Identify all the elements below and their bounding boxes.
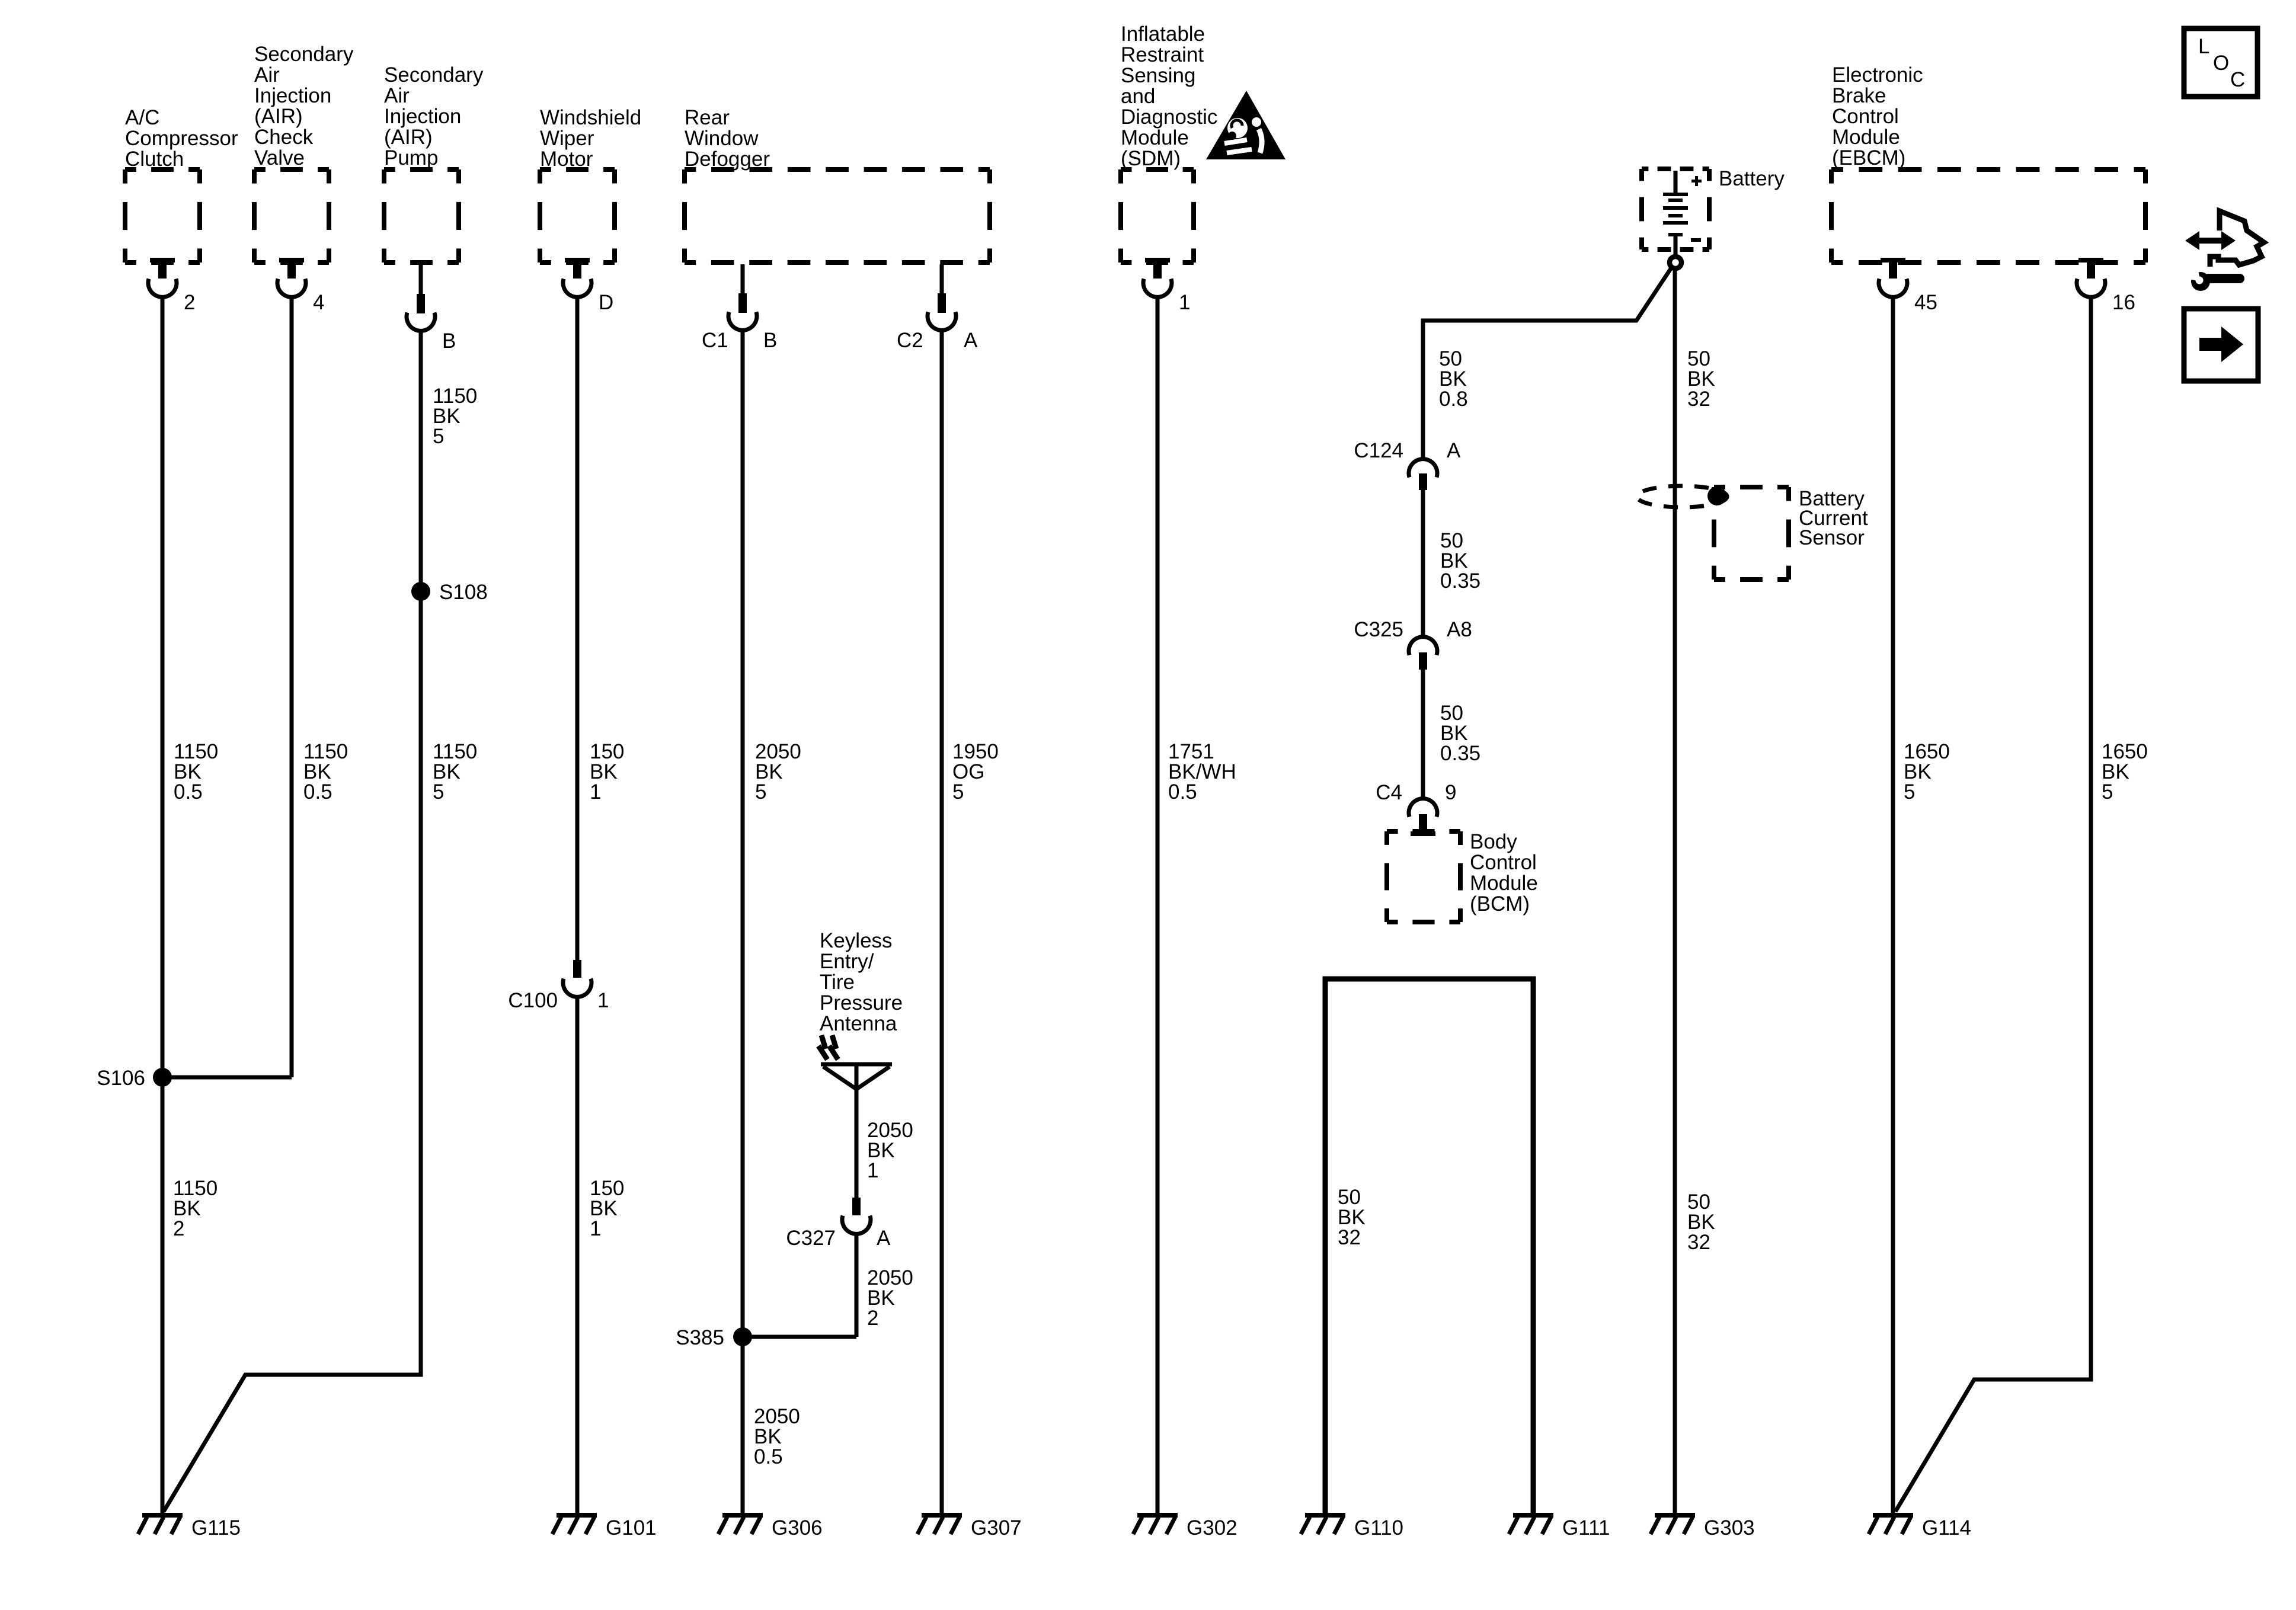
connector C100 pin 1 xyxy=(508,960,609,1012)
connector C327 pin A xyxy=(786,1198,891,1250)
svg-text:1: 1 xyxy=(590,780,601,804)
svg-text:A8: A8 xyxy=(1447,618,1472,641)
svg-text:Check: Check xyxy=(254,126,314,149)
wire defogger C2 to G307 xyxy=(940,329,944,1515)
wire label 150 BK 1 (wiper) xyxy=(590,740,624,804)
wire C124 to C325 xyxy=(1421,490,1425,638)
svg-text:Air: Air xyxy=(254,63,280,87)
svg-text:Diagnostic: Diagnostic xyxy=(1121,105,1217,129)
svg-text:G101: G101 xyxy=(606,1516,657,1539)
svg-text:G302: G302 xyxy=(1187,1516,1237,1539)
connector C325 pin A8 xyxy=(1354,618,1472,670)
svg-text:A/C: A/C xyxy=(125,106,159,129)
svg-text:(AIR): (AIR) xyxy=(254,105,303,128)
svg-text:5: 5 xyxy=(433,780,444,804)
ground G110 xyxy=(1301,1513,1403,1539)
EBCM box xyxy=(1831,63,2145,263)
wire EBCM 45 to G114 xyxy=(1891,295,1895,1513)
svg-text:Wiper: Wiper xyxy=(540,127,594,150)
svg-text:C4: C4 xyxy=(1376,781,1402,804)
svg-text:S106: S106 xyxy=(97,1067,145,1090)
battery box and symbol xyxy=(1642,167,1785,268)
wire antenna to C327 xyxy=(855,1089,859,1199)
wire label 1150 BK 2 (below S106) xyxy=(173,1177,218,1240)
wire label 1150 BK 0.5 (A/C) xyxy=(174,740,218,804)
BCM box xyxy=(1387,830,1538,922)
svg-text:Keyless: Keyless xyxy=(820,929,893,952)
wire label 2050 BK 0.5 (below S385) xyxy=(754,1405,800,1468)
battery current sensor clamp ellipse xyxy=(1637,486,1727,507)
svg-text:C325: C325 xyxy=(1354,618,1403,641)
connector pin SDM pin 1 xyxy=(1143,258,1190,314)
svg-text:(EBCM): (EBCM) xyxy=(1832,146,1905,169)
wire label 1650 BK 5 (EBCM 16) xyxy=(2102,740,2148,804)
svg-text:5: 5 xyxy=(755,780,766,804)
svg-text:Rear: Rear xyxy=(685,106,730,129)
LOC box icon xyxy=(2184,28,2257,97)
splice S108 xyxy=(411,581,488,604)
ground G302 xyxy=(1133,1513,1237,1539)
svg-text:O: O xyxy=(2213,52,2229,75)
svg-text:(AIR): (AIR) xyxy=(384,126,433,149)
keyless entry antenna label xyxy=(820,929,903,1035)
svg-text:(SDM): (SDM) xyxy=(1121,147,1181,170)
AIR Check Valve box xyxy=(254,43,354,263)
connector pin EBCM pin 16 xyxy=(2077,258,2135,314)
boxed right arrow icon xyxy=(2184,309,2258,381)
ground G115 xyxy=(138,1513,241,1539)
connector pin EBCM pin 45 xyxy=(1879,258,1937,314)
wire label 50 BK 32 (battery upper) xyxy=(1687,347,1715,411)
svg-text:Secondary: Secondary xyxy=(254,43,354,66)
wire label 2050 BK 2 (C327 to S385) xyxy=(867,1266,913,1330)
wire wiper motor to C100 xyxy=(575,295,580,961)
ground G303 xyxy=(1651,1513,1755,1539)
wire C100 to G101 xyxy=(575,996,580,1515)
svg-text:A: A xyxy=(877,1227,891,1250)
wire C327 to S385 xyxy=(855,1233,859,1337)
svg-text:5: 5 xyxy=(2102,780,2113,804)
svg-text:Injection: Injection xyxy=(254,84,331,107)
svg-text:Tire: Tire xyxy=(820,971,855,994)
svg-text:C1: C1 xyxy=(702,329,728,352)
connector pin Wiper Motor pin D xyxy=(563,258,613,314)
svg-text:1: 1 xyxy=(597,989,609,1012)
wire battery to G303 xyxy=(1673,270,1677,1515)
svg-text:0.5: 0.5 xyxy=(174,780,203,804)
wire label 50 BK 0.35 (1) xyxy=(1440,529,1480,593)
wire defogger C1 to G306 xyxy=(741,329,745,1515)
svg-text:Clutch: Clutch xyxy=(125,148,184,171)
ground G111 xyxy=(1509,1513,1610,1539)
SDM box xyxy=(1121,23,1217,263)
svg-text:0.5: 0.5 xyxy=(1168,780,1197,804)
svg-text:Windshield: Windshield xyxy=(540,106,641,129)
svg-text:Pressure: Pressure xyxy=(820,991,903,1014)
svg-text:Valve: Valve xyxy=(254,146,305,169)
svg-text:5: 5 xyxy=(952,780,964,804)
svg-text:2: 2 xyxy=(184,291,195,314)
ground G114 xyxy=(1869,1513,1971,1539)
svg-text:Module: Module xyxy=(1121,126,1189,149)
svg-text:Battery: Battery xyxy=(1719,167,1785,190)
svg-text:(BCM): (BCM) xyxy=(1470,892,1530,916)
svg-text:2: 2 xyxy=(867,1307,878,1330)
wire label 150 BK 1 (below C100) xyxy=(590,1177,624,1240)
svg-text:Motor: Motor xyxy=(540,148,593,171)
svg-text:0.5: 0.5 xyxy=(303,780,332,804)
svg-text:Sensing: Sensing xyxy=(1121,64,1195,87)
svg-text:32: 32 xyxy=(1687,1231,1710,1254)
svg-text:Body: Body xyxy=(1470,830,1517,853)
wire AIR pump to G115 via corner xyxy=(164,329,421,1512)
svg-text:A: A xyxy=(1447,439,1461,462)
svg-text:0.8: 0.8 xyxy=(1439,388,1468,411)
svg-text:Control: Control xyxy=(1470,851,1537,874)
connector AIR Pump pin B xyxy=(407,263,456,353)
svg-text:32: 32 xyxy=(1338,1226,1361,1249)
SDM warning triangle icon xyxy=(1206,91,1285,159)
svg-text:G306: G306 xyxy=(772,1516,823,1539)
connector defogger C1 pin B xyxy=(702,264,777,352)
svg-text:Window: Window xyxy=(685,127,759,150)
ground G307 xyxy=(917,1513,1022,1539)
ground G306 xyxy=(718,1513,823,1539)
Windshield Wiper Motor box xyxy=(540,106,641,263)
svg-text:L: L xyxy=(2198,35,2209,58)
svg-text:Defogger: Defogger xyxy=(685,148,770,171)
svg-text:5: 5 xyxy=(1904,780,1915,804)
wire label 1650 BK 5 (EBCM 45) xyxy=(1904,740,1950,804)
svg-text:G307: G307 xyxy=(971,1516,1022,1539)
wire S385 branch xyxy=(743,1335,856,1339)
svg-text:C327: C327 xyxy=(786,1227,836,1250)
wire label 2050 BK 5 (defogger C1) xyxy=(755,740,801,804)
svg-text:4: 4 xyxy=(313,291,324,314)
keyless entry antenna symbol xyxy=(818,1035,892,1090)
svg-text:S385: S385 xyxy=(676,1326,724,1349)
svg-text:5: 5 xyxy=(433,425,444,448)
ground G101 xyxy=(552,1513,657,1539)
connector defogger C2 pin A xyxy=(897,264,978,352)
svg-text:S108: S108 xyxy=(439,581,488,604)
wire label 1150 BK 5 (upper, AIR pump) xyxy=(433,385,477,448)
svg-text:G114: G114 xyxy=(1922,1516,1971,1539)
splice S385 xyxy=(676,1326,752,1349)
vehicle/wrench icon xyxy=(2175,211,2264,291)
Rear Window Defogger box xyxy=(685,106,990,263)
wire label 1150 BK 5 (AIR pump) xyxy=(433,740,477,804)
svg-text:B: B xyxy=(763,329,777,352)
svg-text:Antenna: Antenna xyxy=(820,1012,897,1035)
svg-text:0.35: 0.35 xyxy=(1440,569,1480,593)
wire S106 branch xyxy=(161,1076,292,1080)
svg-text:32: 32 xyxy=(1687,388,1710,411)
svg-text:1: 1 xyxy=(867,1159,878,1182)
svg-text:Air: Air xyxy=(384,84,410,107)
svg-text:0.5: 0.5 xyxy=(754,1445,783,1468)
wire label 1950 OG 5 (defogger C2) xyxy=(952,740,999,804)
svg-text:C100: C100 xyxy=(508,989,558,1012)
svg-text:0.35: 0.35 xyxy=(1440,742,1480,765)
svg-text:A: A xyxy=(964,329,978,352)
svg-text:Module: Module xyxy=(1470,872,1538,895)
wire A/C clutch to G115 xyxy=(161,295,165,1515)
connector C124 pin A xyxy=(1354,439,1461,490)
svg-text:Restraint: Restraint xyxy=(1121,43,1204,66)
svg-text:Pump: Pump xyxy=(384,146,438,169)
svg-text:Electronic: Electronic xyxy=(1832,63,1923,87)
svg-text:Inflatable: Inflatable xyxy=(1121,23,1205,46)
svg-text:1: 1 xyxy=(590,1217,601,1240)
AIR Pump box xyxy=(384,63,484,263)
svg-text:Injection: Injection xyxy=(384,105,461,128)
splice S106 xyxy=(97,1067,172,1090)
connector C4 pin 9 xyxy=(1376,781,1456,836)
svg-text:Secondary: Secondary xyxy=(384,63,484,87)
svg-text:Sensor: Sensor xyxy=(1799,526,1865,549)
svg-text:9: 9 xyxy=(1445,781,1456,804)
svg-text:G115: G115 xyxy=(191,1516,241,1539)
svg-text:1: 1 xyxy=(1179,291,1190,314)
svg-text:G111: G111 xyxy=(1562,1516,1610,1539)
wire label 50 BK 0.35 (2) xyxy=(1440,702,1480,765)
wire label 1150 BK 0.5 (check valve) xyxy=(303,740,348,804)
svg-text:D: D xyxy=(599,291,613,314)
wire C325 to C4 xyxy=(1421,670,1425,799)
svg-text:G303: G303 xyxy=(1704,1516,1755,1539)
svg-text:45: 45 xyxy=(1914,291,1937,314)
svg-text:Entry/: Entry/ xyxy=(820,950,874,973)
svg-text:Brake: Brake xyxy=(1832,84,1886,107)
Battery Current Sensor box xyxy=(1714,487,1868,580)
wire battery node to BCM chain xyxy=(1423,268,1671,460)
wire check valve to S106 xyxy=(290,295,294,1077)
wire label 2050 BK 1 (antenna) xyxy=(867,1119,913,1182)
wire EBCM 16 to G114 via corner xyxy=(1895,295,2091,1512)
wire label 50 BK 0.8 xyxy=(1439,347,1468,411)
svg-text:Compressor: Compressor xyxy=(125,127,238,150)
svg-text:B: B xyxy=(442,329,456,353)
ground strap wire G110-G111 xyxy=(1325,979,1533,1515)
connector pin Check Valve pin 4 xyxy=(277,258,324,314)
svg-text:Control: Control xyxy=(1832,105,1899,128)
svg-text:G110: G110 xyxy=(1354,1516,1403,1539)
svg-text:C2: C2 xyxy=(897,329,923,352)
wire label 1751 BK/WH 0.5 (SDM) xyxy=(1168,740,1236,804)
wire label 50 BK 32 (battery lower) xyxy=(1687,1190,1715,1254)
connector pin A/C pin 2 xyxy=(148,258,195,314)
svg-text:C124: C124 xyxy=(1354,439,1403,462)
svg-text:Module: Module xyxy=(1832,126,1900,149)
A/C Compressor Clutch box xyxy=(125,106,238,263)
svg-text:and: and xyxy=(1121,85,1155,108)
svg-text:16: 16 xyxy=(2112,291,2135,314)
wire label 50 BK 32 (G110 strap) xyxy=(1338,1186,1366,1249)
svg-text:C: C xyxy=(2230,68,2245,91)
svg-text:2: 2 xyxy=(173,1217,184,1240)
wire SDM to G302 xyxy=(1156,295,1160,1515)
